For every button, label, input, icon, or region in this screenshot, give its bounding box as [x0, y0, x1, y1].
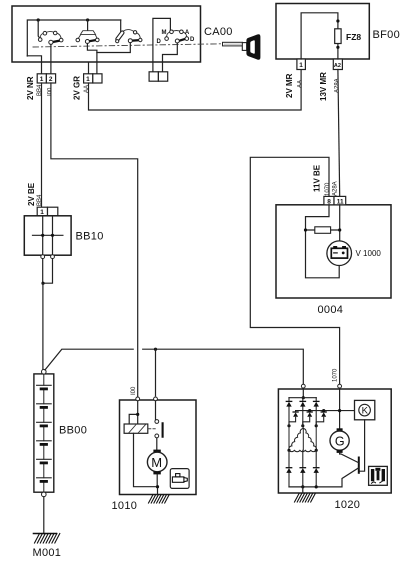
rotary switch S1 (accessories): [38, 20, 63, 44]
wire connector 3 to switch S4 feed: [153, 18, 171, 71]
svg-text:BB00: BB00: [59, 425, 87, 437]
svg-text:BB4: BB4: [37, 194, 43, 206]
label I00: [48, 87, 54, 96]
label A28A (BF00): [335, 78, 341, 93]
rectifier top bus: [289, 397, 316, 399]
svg-text:K: K: [362, 406, 369, 417]
svg-text:BB10: BB10: [76, 231, 104, 243]
label BB10: [76, 231, 104, 243]
solenoid contact: [155, 401, 163, 450]
label 2V GR: [73, 76, 82, 100]
svg-text:D: D: [157, 39, 162, 45]
wire A28A (BF00 A2 to 0004 pin 11): [338, 70, 340, 197]
label FZ8: [346, 32, 361, 42]
bus junction node (switch 2 tap): [86, 18, 89, 21]
ignition switch unit CA00 box: [12, 6, 201, 62]
0004 internal wires: [306, 205, 340, 278]
label BB4: [37, 84, 43, 96]
1010 internal ground wires: [134, 433, 160, 494]
svg-text:2: 2: [49, 76, 53, 83]
resistor (shunt): [315, 227, 331, 234]
label I00 (1010): [131, 386, 137, 395]
svg-text:1: 1: [86, 76, 90, 83]
svg-text:2V BE: 2V BE: [27, 182, 36, 206]
bus junction node (starter feed): [154, 348, 157, 351]
ignition switch S4 (M A D positions): [157, 30, 196, 45]
label V1000: [356, 249, 382, 258]
svg-text:CA00: CA00: [204, 26, 233, 38]
solenoid coil: [124, 424, 148, 433]
rectifier bottom bus: [289, 485, 342, 488]
spare connector: [149, 72, 168, 81]
svg-text:11: 11: [337, 198, 344, 205]
svg-text:13V MR: 13V MR: [319, 72, 328, 101]
wire I00 (CA00 pin2 to starter 1010): [51, 83, 138, 398]
svg-text:M001: M001: [33, 547, 62, 559]
fuse box BF00: [276, 4, 369, 60]
svg-text:BF00: BF00: [373, 29, 401, 41]
wires BB10 outputs merge: [41, 259, 52, 285]
connector pins 1 2 (2V NR): [37, 74, 55, 83]
svg-text:D: D: [190, 37, 195, 43]
BB10 output terminals: [41, 255, 55, 259]
label 2V NR: [26, 76, 35, 100]
label CA00: [204, 26, 233, 38]
wire B+ pin to rectifier bus: [302, 388, 305, 399]
voltmeter V1000: [327, 241, 352, 266]
label 1020: [335, 499, 361, 511]
mechanical linkage (dash-dot): [33, 44, 222, 47]
label 1010: [112, 500, 138, 512]
wire BB10 to battery: [42, 283, 44, 369]
BB10 pin 1: [37, 207, 58, 216]
BF00 pin 1: [297, 59, 306, 70]
label A28A (at 0004): [333, 181, 339, 196]
0004 pin 11: [334, 196, 346, 205]
bus junction node (switch 1 tap): [37, 18, 40, 21]
negative diodes: [286, 450, 319, 487]
node (resistor left): [304, 228, 307, 231]
ignition key: [223, 34, 261, 60]
mechanical link coil-contact: [148, 428, 155, 430]
svg-text:2V NR: 2V NR: [26, 76, 35, 100]
svg-text:1: 1: [40, 76, 44, 83]
svg-text:I00: I00: [131, 386, 137, 395]
svg-text:M: M: [151, 455, 162, 470]
connector pin 1 (2V GR): [84, 74, 102, 83]
label BB4 (BB10): [37, 194, 43, 206]
wire bus to pin 1: [27, 56, 41, 74]
wire S4 output to connector 3: [163, 43, 178, 72]
switch S2 (shunt contact): [76, 20, 99, 44]
svg-text:M: M: [162, 30, 167, 36]
fuse FZ8: [335, 19, 341, 49]
stator winding (delta): [287, 426, 317, 452]
wire 1070 (0004 pin 8 to alternator 1020): [250, 157, 339, 384]
1020 ground hatch: [295, 494, 316, 502]
starter pictogram: [170, 469, 189, 489]
BF00 pin A2: [333, 59, 342, 70]
svg-text:G: G: [335, 434, 345, 448]
svg-text:1010: 1010: [112, 500, 138, 512]
excitation diodes and D+ bus: [289, 409, 355, 426]
svg-text:A2: A2: [334, 63, 341, 69]
positive diodes: [286, 398, 319, 426]
svg-text:FZ8: FZ8: [346, 32, 361, 42]
0004 pin 8: [324, 196, 334, 205]
wire battery positive to supply bus: [45, 349, 303, 384]
starter box 1010: [120, 400, 197, 495]
regulator box K: [355, 400, 375, 419]
svg-text:2V GR: 2V GR: [73, 76, 82, 100]
wire AA (CA00 to fuse box BF00): [89, 70, 302, 111]
node (resistor right): [338, 228, 341, 231]
BF00 internal wire: [301, 13, 338, 59]
phase nodes: [287, 424, 317, 427]
label 11V BE: [313, 164, 322, 192]
svg-text:V 1000: V 1000: [356, 249, 382, 258]
instrument panel box 0004: [276, 205, 391, 298]
wire battery negative to ground: [43, 497, 45, 534]
junction unit BB10 box: [24, 216, 71, 255]
svg-text:11V BE: 11V BE: [313, 164, 322, 192]
svg-text:A: A: [185, 30, 190, 36]
label BF00: [373, 29, 401, 41]
label M001: [33, 547, 62, 559]
wire S1 output to pin 2 (I00): [50, 44, 52, 74]
battery BB00: [34, 369, 54, 496]
wire S2 output to connector: [87, 44, 97, 75]
svg-text:1070: 1070: [325, 182, 331, 196]
rotor G: [330, 428, 349, 453]
wire bus to starter 1010: [155, 349, 157, 396]
label 1070 (at 0004): [325, 182, 331, 196]
label 1070 (at 1020): [333, 368, 339, 382]
svg-text:AA: AA: [298, 80, 304, 88]
label 0004: [318, 304, 344, 316]
1020 ground wire: [302, 487, 304, 493]
svg-text:1070: 1070: [333, 368, 339, 382]
wire BB4 (CA00 pin1 to BB10): [41, 83, 43, 207]
wire D+ pin to regulator bus: [338, 388, 341, 428]
solenoid coil wires: [129, 401, 139, 424]
switch S3 (starter contact with blade): [115, 20, 142, 43]
label 2V MR: [285, 73, 294, 98]
1010 input terminals: [136, 397, 158, 401]
BB10 internal bus: [33, 216, 63, 255]
transistor (field control): [340, 453, 359, 487]
wire S3 output: [97, 43, 130, 53]
alternator pictogram: [369, 466, 388, 485]
1020 input terminals: [301, 384, 341, 388]
ground M001: [34, 534, 60, 544]
label 2V BE: [27, 182, 36, 206]
svg-text:2V MR: 2V MR: [285, 73, 294, 98]
label AA: [84, 85, 90, 93]
starter motor M: [147, 450, 167, 475]
label AA (BF00): [298, 80, 304, 88]
alternator box 1020: [278, 389, 391, 493]
label BB00: [59, 425, 87, 437]
label 13V MR: [319, 72, 328, 101]
internal supply bus wire: [27, 20, 120, 56]
1010 internal ground hatch: [149, 495, 170, 503]
svg-text:A28A: A28A: [333, 181, 339, 196]
svg-text:1020: 1020: [335, 499, 361, 511]
svg-text:1: 1: [299, 62, 303, 69]
wire regulator to transistor base: [360, 420, 365, 471]
svg-text:0004: 0004: [318, 304, 344, 316]
